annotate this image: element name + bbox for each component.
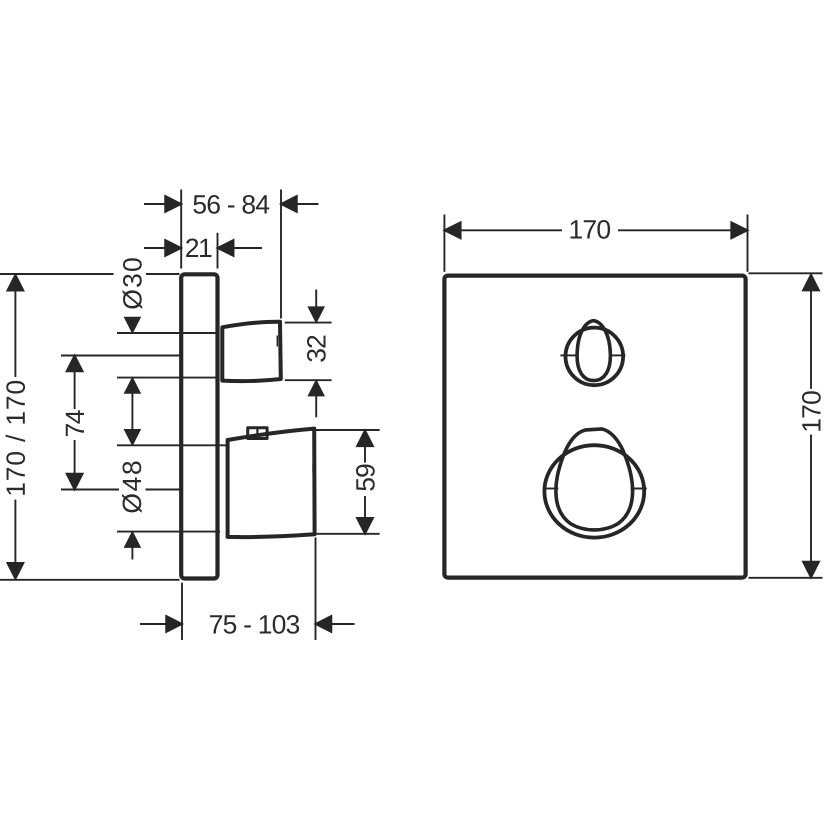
shut-off handle edge highlight <box>276 336 278 347</box>
safety-stop button <box>248 428 267 439</box>
dimension 170 right arrow bottom <box>803 435 819 578</box>
dimension 59 reference line bottom <box>316 533 380 535</box>
dimension 170/170 extension line bottom <box>0 579 180 581</box>
dimension 59 arrow bottom <box>357 496 373 534</box>
dimension 74 label <box>66 410 84 436</box>
dimension D30 reference line top <box>117 332 217 334</box>
dimension D30 arrow top <box>124 317 140 333</box>
safety-stop button divider <box>256 428 258 439</box>
dimension D48 arrow bottom <box>124 532 140 548</box>
dimension 74 reference line bottom <box>61 489 180 491</box>
dimension D48 label <box>122 462 142 513</box>
dimension 32 arrow bottom <box>308 380 324 396</box>
dimension 32 stem bottom <box>315 396 317 417</box>
shut-off handle tick right <box>611 354 626 356</box>
dimension 56-84 label <box>193 195 269 214</box>
dimension 170/170 arrow top <box>7 275 23 377</box>
dimension 170 top arrow right <box>618 222 748 238</box>
dimension 32 reference line top <box>285 322 332 324</box>
shut-off handle grip (front view) <box>577 321 610 381</box>
dimension 170 top extension line left <box>443 215 445 272</box>
dimension 75-103 arrow left <box>140 616 182 632</box>
dimension D30 arrow bottom <box>124 378 140 394</box>
dimension 170 top extension line right <box>747 215 749 272</box>
thermostat handle edge highlight <box>312 464 314 473</box>
dimension D48 stem bottom <box>131 547 133 559</box>
dimension 75-103 extension line left <box>181 583 183 640</box>
dimension 21 arrow right <box>218 240 263 256</box>
dimension 170/170 arrow bottom <box>7 500 23 579</box>
dimension 170/170 label <box>6 381 25 495</box>
dimension 56-84 arrow right <box>281 196 319 212</box>
dimension 170 right arrow top <box>803 275 819 389</box>
dimension 32 stem top <box>315 290 317 307</box>
dimension D48 reference line bottom <box>117 531 220 533</box>
shut-off handle ring (front view) <box>566 328 624 386</box>
dimension 32 reference line bottom <box>285 379 332 381</box>
dimension 21 extension line right <box>217 233 219 269</box>
dimension 170 right extension line bottom <box>749 577 823 579</box>
dimension 56-84 arrow left <box>144 196 181 212</box>
dimension 59 arrow top <box>357 430 373 462</box>
dimension 74 reference line top <box>61 355 180 357</box>
dimension D48 arrow top <box>124 430 140 446</box>
dimension 170/170 extension line top <box>0 273 180 275</box>
dimension 170 right label <box>802 391 821 431</box>
dimension D48 reference line top <box>117 444 226 446</box>
thermostat handle ring (front view) <box>544 445 644 537</box>
dimension 32 arrow top <box>308 307 324 323</box>
thermostat handle grip (front view) <box>556 429 633 530</box>
dimension D30 label <box>123 258 143 309</box>
dimension 21 label <box>186 239 211 258</box>
shut-off handle (side view, top) <box>222 322 280 381</box>
dimension 59 label <box>356 465 375 491</box>
escutcheon plate (front view) <box>444 276 745 578</box>
dimension D30/D48 connecting stem <box>131 393 133 429</box>
dimension D30 reference line bottom <box>117 377 217 379</box>
shut-off handle tick left <box>560 354 576 356</box>
dimension 32 label <box>307 336 326 362</box>
dimension 59 reference line top <box>316 429 380 431</box>
dimension 170 top label <box>571 220 611 239</box>
dimension 56-84 extension line left <box>180 190 182 269</box>
dimension 170 top arrow left <box>444 222 562 238</box>
thermostat handle (side view, bottom) <box>228 429 315 538</box>
dimension 170 right extension line top <box>749 272 823 274</box>
dimension 74 arrow top <box>67 356 83 410</box>
dimension 56-84 extension line right <box>280 190 282 319</box>
dimension 75-103 extension line right <box>315 538 317 641</box>
dimension 75-103 arrow right <box>316 616 355 632</box>
thermostat handle tick left <box>544 488 558 490</box>
wall plate (side view) <box>181 274 217 578</box>
dimension 75-103 label <box>210 615 299 634</box>
thermostat handle tick right <box>631 488 647 490</box>
dimension 74 arrow bottom <box>67 440 83 490</box>
dimension 21 arrow left <box>144 240 181 256</box>
